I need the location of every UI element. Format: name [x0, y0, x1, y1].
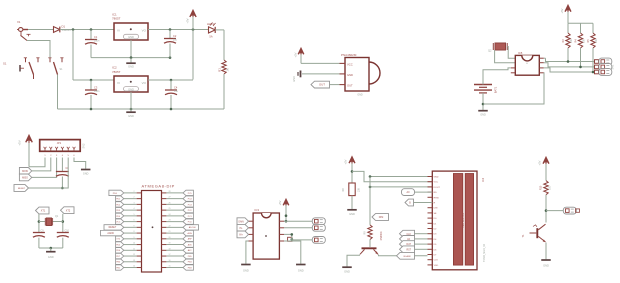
crystal Q1 — [39, 215, 63, 226]
net flag IN3 — [237, 231, 249, 238]
svg-text:C2: C2 — [173, 34, 177, 38]
ground symbol crystal — [46, 252, 56, 259]
wire D1 to IC1 VI — [60, 28, 114, 31]
wire bus to display pin1 — [369, 175, 433, 178]
svg-text:LED DISPLAY: LED DISPLAY — [462, 212, 465, 228]
net flag PC0 — [166, 219, 193, 224]
svg-text:OUT: OUT — [319, 83, 325, 87]
wire IC3 pin to SP2 flag — [284, 227, 312, 229]
svg-text:1N4004: 1N4004 — [62, 28, 72, 32]
net flag D3 display — [400, 246, 428, 253]
ATMEGA body and pins — [137, 183, 175, 272]
ground symbol Q3 — [342, 267, 352, 273]
svg-text:7805T: 7805T — [112, 70, 121, 74]
wire R1 to gnd rail — [223, 74, 225, 109]
ground symbol below rail — [126, 109, 136, 118]
net flag IN1 — [237, 218, 249, 225]
net flag XTAL2 — [61, 207, 75, 214]
svg-text:2: 2 — [134, 191, 135, 193]
svg-text:BLANK: BLANK — [404, 255, 412, 258]
wire +5V to display pin2 — [352, 171, 432, 181]
wire Q3 emitter to gnd — [347, 255, 360, 267]
svg-text:7805T: 7805T — [112, 17, 121, 21]
wire R9 to Q3 base — [369, 240, 371, 248]
wire IC2 GND to rail — [130, 92, 132, 109]
svg-text:IC4: IC4 — [481, 177, 485, 182]
svg-text:AGN: AGN — [188, 232, 193, 235]
resistor R5 — [587, 33, 598, 48]
svg-text:AVC: AVC — [188, 249, 193, 252]
svg-text:6: 6 — [134, 220, 135, 222]
svg-text:10K: 10K — [596, 38, 598, 43]
net flag MISO — [19, 174, 31, 181]
svg-text:GND: GND — [298, 269, 304, 273]
wire IC3 vcc pin — [284, 220, 287, 223]
svg-text:GND: GND — [434, 177, 439, 179]
svg-text:10K: 10K — [571, 38, 573, 43]
net flag PD4 — [116, 213, 137, 218]
svg-text:+5V: +5V — [186, 18, 190, 23]
+5V supply symbol top — [186, 11, 197, 80]
gnd rail under IC1 — [91, 56, 171, 59]
connector X1 power jack — [17, 20, 31, 41]
svg-text:20: 20 — [169, 237, 171, 239]
svg-text:DIN: DIN — [434, 208, 438, 210]
svg-text:VI: VI — [117, 81, 120, 85]
svg-text:PNA4602M: PNA4602M — [341, 53, 357, 57]
wire IC5 to SV1 line3 — [544, 48, 595, 73]
svg-text:13: 13 — [133, 260, 135, 262]
wire vertical bus to flag — [369, 177, 371, 218]
net flag XT2 — [116, 236, 137, 241]
connector SV1 pin 2 — [595, 64, 612, 71]
svg-text:R10: R10 — [540, 185, 543, 190]
net flag AD6 — [166, 242, 193, 247]
net flag ARF — [166, 236, 193, 241]
wire JP1 pin3 to MISO flag — [32, 158, 57, 178]
net flag PC4 — [166, 196, 193, 201]
net flag PC2 — [166, 207, 193, 212]
switch S1 pole A — [3, 58, 40, 79]
net flag D0 display — [400, 230, 428, 237]
net flag PD3 — [116, 207, 137, 212]
ground symbol IC3 left — [241, 265, 251, 273]
svg-text:100n: 100n — [94, 40, 100, 43]
wire Q3 collector to display — [379, 255, 428, 256]
wire IC1 GND to rail — [130, 40, 132, 58]
+5V supply for IR receiver — [294, 49, 304, 64]
connector SV1 pin 1 — [595, 58, 612, 65]
wire XT1 to C9 — [38, 214, 41, 232]
svg-text:2: 2 — [134, 197, 135, 199]
net flag dim — [372, 214, 389, 221]
svg-text:IN-: IN- — [239, 228, 242, 230]
wire flag to R9 — [369, 217, 371, 225]
resistor R8 — [342, 183, 361, 196]
svg-text:10u: 10u — [174, 90, 179, 93]
wire BAT1 plus to IC5 — [483, 68, 511, 85]
resistor R1 — [218, 60, 230, 74]
svg-text:R1: R1 — [218, 68, 222, 72]
svg-text:VDD: VDD — [434, 265, 439, 267]
connector SV1 pin 3 — [595, 64, 615, 75]
resistor R9 — [364, 225, 384, 240]
net flag AVC — [166, 248, 193, 253]
+5V supply piezo — [538, 158, 549, 181]
svg-text:14: 14 — [133, 266, 135, 268]
svg-text:S1: S1 — [3, 62, 7, 66]
svg-text:VI: VI — [117, 28, 120, 32]
net flag PB1 — [116, 265, 137, 270]
RTC IC5 — [511, 51, 544, 75]
transistor Q3 — [360, 248, 378, 254]
svg-text:+5V: +5V — [18, 140, 22, 145]
wire IC5 to SV1 line1 — [544, 48, 595, 63]
wire IC2 VO net — [148, 79, 193, 82]
svg-text:9: 9 — [134, 237, 135, 239]
svg-text:5: 5 — [134, 214, 135, 216]
capacitor C9 — [33, 230, 45, 249]
net flag AGND (wide) — [101, 230, 137, 235]
net flag PC3 — [166, 202, 193, 207]
net flag PC1 — [166, 213, 193, 218]
svg-text:25: 25 — [169, 208, 171, 210]
capacitor C1 — [85, 30, 100, 58]
svg-text:23: 23 — [169, 220, 171, 222]
svg-text:RESET: RESET — [109, 227, 117, 229]
svg-text:Q2: Q2 — [488, 49, 492, 53]
net flag OUT — [311, 81, 330, 88]
wire IC3 pin to SP1 flag — [284, 220, 312, 222]
ground symbol R8 — [347, 210, 357, 216]
wire +5V to VCC pin — [301, 62, 340, 64]
switch S1 pole B — [48, 58, 63, 75]
svg-text:16: 16 — [169, 260, 171, 262]
connector flag SP2 — [312, 224, 325, 231]
pin header JP1 body — [40, 140, 86, 158]
wire LED1 to R1 — [215, 30, 224, 60]
svg-text:GND: GND — [128, 87, 134, 91]
resistor R3 — [562, 33, 573, 48]
wire IC3 pin4 to gnd — [246, 241, 249, 264]
net flag PB3 — [166, 265, 193, 270]
net flag PD5 — [116, 242, 137, 247]
resistor R10 — [540, 181, 552, 195]
svg-text:DOUT: DOUT — [434, 187, 441, 189]
wire Q2 right to IC5 — [507, 47, 515, 59]
svg-text:15: 15 — [169, 266, 171, 268]
net flag DIN display — [402, 189, 433, 196]
terminal bar X1 sleeve — [20, 65, 24, 72]
gnd rail bottom — [58, 108, 225, 111]
svg-text:C4: C4 — [174, 86, 178, 90]
wire IC3 pin4R to gnd — [284, 241, 301, 264]
svg-text:+5V: +5V — [538, 160, 542, 165]
svg-text:10K: 10K — [358, 187, 361, 192]
net flag RESET — [14, 185, 29, 192]
svg-text:VCC: VCC — [434, 182, 439, 184]
svg-text:RESET: RESET — [18, 188, 26, 190]
svg-text:11: 11 — [133, 248, 135, 250]
svg-text:TDSM_MGD_40: TDSM_MGD_40 — [483, 243, 486, 261]
IR receiver IC6 PNA4602M — [340, 53, 381, 97]
svg-text:12: 12 — [133, 254, 135, 256]
ground symbol T1 — [541, 260, 551, 268]
svg-text:GAIN: GAIN — [238, 220, 244, 223]
svg-text:28: 28 — [169, 191, 171, 193]
svg-text:21: 21 — [169, 231, 171, 233]
net flag D4 display wide — [397, 252, 415, 259]
svg-text:10: 10 — [133, 243, 135, 245]
net flag AGN — [166, 230, 193, 235]
svg-text:SV2: SV2 — [82, 143, 86, 148]
svg-text:BAT1: BAT1 — [494, 86, 498, 93]
svg-text:GND: GND — [243, 269, 249, 273]
+5V supply IC3 — [278, 200, 289, 222]
IC3 body and pins — [249, 208, 285, 259]
svg-text:2N3904: 2N3904 — [380, 231, 383, 240]
wire BAT1 gnd to IC5 pin — [483, 73, 544, 104]
svg-text:+5V: +5V — [278, 200, 282, 205]
+5V supply display — [344, 157, 355, 183]
svg-text:3: 3 — [134, 202, 135, 204]
net flag PC5 — [166, 190, 193, 195]
ground symbol JP1 — [81, 170, 91, 176]
wire R10 to T1 — [545, 195, 548, 223]
net flag PD2 — [116, 202, 137, 207]
+5V supply pullups — [560, 6, 571, 24]
net flag RESET (wide) — [104, 225, 137, 230]
svg-text:IC3: IC3 — [255, 208, 260, 212]
svg-text:9: 9 — [134, 225, 135, 227]
svg-text:GND: GND — [48, 255, 54, 259]
svg-text:ATMEGA8-DIP: ATMEGA8-DIP — [142, 183, 175, 188]
svg-text:GND: GND — [128, 35, 134, 39]
svg-text:+5V: +5V — [344, 159, 348, 164]
net flag PD0 (wide) — [109, 190, 137, 195]
svg-text:AGND: AGND — [107, 232, 114, 235]
wire S1 to gnd rail — [57, 75, 60, 110]
svg-text:MISO: MISO — [22, 178, 28, 180]
net flag PB5 — [166, 253, 193, 258]
diode D1 — [54, 25, 72, 33]
svg-text:GND: GND — [347, 73, 353, 77]
svg-text:VO: VO — [142, 81, 147, 85]
svg-text:VO: VO — [142, 28, 147, 32]
wire IC1 VO to LED1 — [148, 28, 208, 31]
svg-text:X1: X1 — [17, 20, 21, 24]
svg-text:D1: D1 — [62, 25, 66, 29]
wire OUT pin — [330, 84, 340, 86]
wire Q2 left to IC5 — [495, 50, 516, 63]
svg-text:5A: 5A — [209, 35, 212, 39]
svg-text:C1: C1 — [94, 35, 98, 39]
wire JP1 pin5 to RESET flag — [29, 158, 69, 189]
ground symbol IC3 right — [296, 265, 306, 273]
voltage regulator IC2 7805 — [112, 66, 148, 93]
svg-text:17: 17 — [169, 254, 171, 256]
capacitor C10 — [57, 230, 70, 249]
svg-text:VCC: VCC — [116, 222, 121, 224]
connector flag piezo — [563, 207, 579, 214]
net flag PD7 — [116, 253, 137, 258]
svg-text:4: 4 — [134, 208, 135, 210]
wire T1 emitter to gnd — [545, 243, 547, 260]
svg-text:GND: GND — [357, 94, 363, 97]
net flag VCC — [116, 219, 137, 224]
svg-text:CLK: CLK — [434, 260, 439, 262]
svg-text:GND: GND — [344, 270, 350, 274]
wire pullup rail — [568, 23, 593, 33]
connector flag SP3 — [312, 237, 325, 244]
svg-text:VCC: VCC — [347, 62, 353, 66]
svg-text:SV1: SV1 — [611, 64, 615, 69]
crystal Q2 — [488, 43, 507, 53]
svg-text:GND: GND — [128, 65, 134, 69]
svg-text:C3: C3 — [94, 86, 98, 90]
svg-text:10K: 10K — [584, 38, 586, 43]
net flag B display — [405, 199, 432, 206]
svg-text:GND: GND — [349, 212, 355, 216]
connector flag SP1 — [312, 218, 325, 225]
net flag MOSI — [19, 168, 31, 175]
wire X1 switch to S1 — [27, 41, 50, 58]
wire IC5 to SV1 line2 — [544, 48, 595, 68]
wire BAT1 minus to gnd — [482, 93, 485, 110]
svg-text:24: 24 — [169, 214, 171, 216]
svg-text:22: 22 — [169, 225, 171, 227]
svg-text:GND: GND — [480, 113, 486, 116]
wire X1 to D1 — [28, 29, 53, 31]
+5V supply ISP — [18, 136, 33, 167]
wire JP1 pin4 to C8 — [61, 158, 63, 172]
battery BAT1 — [474, 85, 498, 94]
svg-text:GND: GND — [128, 114, 134, 118]
svg-text:OUT: OUT — [347, 84, 353, 88]
net flag PD6 — [116, 248, 137, 253]
wire +5V to JP1 pin1 — [29, 158, 45, 167]
wire node to IC2 input — [73, 30, 114, 82]
wire bus to display pin3 — [369, 186, 433, 189]
capacitor C3 — [85, 80, 100, 109]
svg-text:XT1: XT1 — [41, 210, 46, 213]
net flag PB0 — [116, 259, 137, 264]
svg-text:GND: GND — [543, 264, 549, 268]
net flag D2 display — [400, 241, 428, 248]
capacitor C8 — [56, 167, 69, 189]
capacitor C4 — [165, 80, 179, 109]
resistor R4 — [575, 33, 586, 48]
capacitor C2 — [164, 30, 178, 58]
svg-text:100n: 100n — [94, 90, 100, 93]
net flag IN2 — [237, 224, 249, 231]
net flag PB4 — [166, 259, 193, 264]
transistor T1 — [521, 224, 546, 242]
svg-text:1K: 1K — [226, 68, 230, 71]
svg-text:MOSI: MOSI — [22, 171, 28, 173]
wire GND pin — [302, 73, 340, 75]
LED LED1 — [207, 22, 216, 39]
ground symbol below IC1 — [126, 58, 136, 69]
bypass component IC3 — [288, 237, 294, 241]
svg-text:27: 27 — [169, 197, 171, 199]
svg-text:GND: GND — [293, 76, 296, 82]
svg-text:RS: RS — [434, 192, 438, 194]
voltage regulator IC1 7805 — [112, 13, 148, 41]
net flag D1 display — [400, 236, 428, 243]
svg-text:+5V: +5V — [294, 52, 298, 57]
wire R8 to gnd — [351, 196, 353, 209]
svg-text:18: 18 — [169, 248, 171, 250]
svg-text:10u: 10u — [173, 39, 178, 42]
net flag right (wide) — [166, 225, 198, 230]
wire caps to gnd — [39, 247, 63, 251]
display body — [428, 171, 487, 270]
svg-text:+: + — [526, 62, 528, 66]
wire XT2 to C10 — [62, 214, 65, 232]
svg-text:19: 19 — [169, 243, 171, 245]
svg-text:GND: GND — [83, 173, 89, 176]
ground symbol BAT1 — [478, 111, 488, 117]
svg-text:JP1: JP1 — [57, 141, 62, 145]
net flag PD1 — [116, 196, 137, 201]
wire JP1 pin6 to gnd — [74, 158, 86, 169]
svg-text:8: 8 — [134, 231, 135, 233]
svg-text:XT2: XT2 — [66, 209, 71, 212]
ground symbol IR receiver — [293, 71, 301, 82]
net flag XTAL1 — [36, 207, 50, 214]
wire JP1 pin2 to MOSI flag — [32, 158, 51, 171]
wire node to piezo flag — [546, 210, 563, 212]
svg-text:RST: RST — [406, 249, 411, 251]
svg-text:IC5: IC5 — [518, 51, 523, 55]
svg-text:DIM: DIM — [379, 216, 383, 219]
wire IC3 pin3 to flag — [284, 233, 312, 240]
svg-text:+5V: +5V — [560, 8, 564, 13]
svg-text:26: 26 — [169, 202, 171, 204]
svg-text:ADC60: ADC60 — [189, 226, 197, 229]
